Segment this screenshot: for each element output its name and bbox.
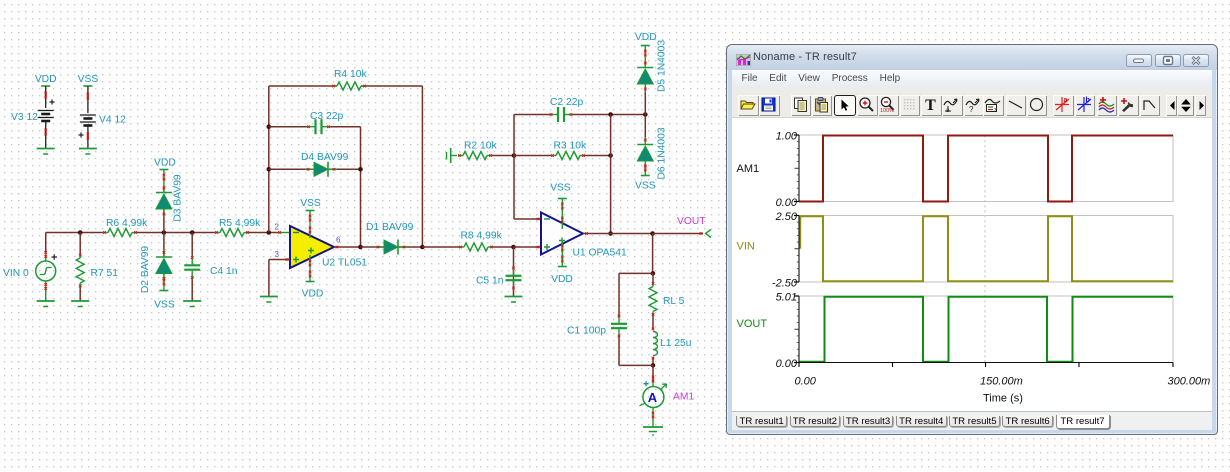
svg-text:D1 BAV99: D1 BAV99 [366, 222, 414, 233]
svg-text:U1 OPA541: U1 OPA541 [573, 248, 627, 259]
svg-text:VSS: VSS [154, 300, 175, 311]
svg-text:AM1: AM1 [673, 392, 694, 403]
svg-text:b: b [1085, 97, 1089, 104]
svg-text:a: a [1064, 97, 1068, 104]
svg-text:VOUT: VOUT [737, 318, 768, 330]
svg-text:z: z [994, 108, 997, 114]
svg-text:3: 3 [275, 250, 280, 259]
svg-text:R5 4,99k: R5 4,99k [219, 218, 261, 229]
svg-text:300.00m: 300.00m [1168, 376, 1211, 388]
svg-text:VDD: VDD [35, 74, 57, 85]
svg-text:AM1: AM1 [737, 163, 760, 175]
svg-text:V3 12: V3 12 [11, 112, 38, 123]
svg-text:VSS: VSS [78, 74, 99, 85]
svg-text:VDD: VDD [154, 158, 176, 169]
svg-text:-2.50: -2.50 [772, 277, 798, 289]
svg-text:D3 BAV99: D3 BAV99 [173, 174, 184, 222]
svg-text:0.00: 0.00 [776, 358, 798, 370]
svg-text:150.00m: 150.00m [980, 376, 1023, 388]
svg-text:C4 1n: C4 1n [210, 266, 238, 277]
svg-text:100%: 100% [880, 108, 894, 113]
svg-text:0.00: 0.00 [795, 376, 817, 388]
svg-text:L1 25u: L1 25u [660, 338, 692, 349]
svg-text:1.00: 1.00 [776, 130, 798, 142]
svg-text:2.50: 2.50 [775, 211, 798, 223]
svg-text:R6 4,99k: R6 4,99k [106, 218, 148, 229]
svg-text:VSS: VSS [550, 183, 571, 194]
svg-text:R4 10k: R4 10k [334, 69, 367, 80]
svg-text:V4 12: V4 12 [99, 115, 126, 126]
svg-text:5.01: 5.01 [776, 291, 797, 303]
svg-text:VDD: VDD [302, 289, 324, 300]
svg-text:VSS: VSS [635, 181, 656, 192]
svg-text:R8 4,99k: R8 4,99k [461, 231, 503, 242]
svg-text:C1 100p: C1 100p [567, 326, 606, 337]
svg-text:VIN 0: VIN 0 [3, 268, 29, 279]
svg-text:D6 1N4003: D6 1N4003 [657, 127, 668, 179]
svg-text:R7 51: R7 51 [91, 268, 119, 279]
svg-text:RL 5: RL 5 [663, 296, 685, 307]
svg-text:C2 22p: C2 22p [550, 97, 583, 108]
svg-text:T: T [925, 97, 936, 113]
svg-text:C5 1n: C5 1n [476, 276, 504, 287]
svg-text:VDD: VDD [551, 274, 573, 285]
svg-text:0.00: 0.00 [776, 197, 798, 209]
svg-text:D4 BAV99: D4 BAV99 [301, 152, 349, 163]
svg-text:VDD: VDD [635, 32, 657, 43]
svg-text:D2 BAV99: D2 BAV99 [140, 246, 151, 294]
svg-text:R2 10k: R2 10k [464, 141, 497, 152]
svg-text:C3 22p: C3 22p [310, 111, 343, 122]
svg-text:6: 6 [336, 236, 341, 245]
svg-text:?: ? [969, 105, 974, 113]
svg-text:Time (s): Time (s) [983, 393, 1023, 405]
svg-text:VSS: VSS [300, 198, 321, 209]
svg-text:VOUT: VOUT [677, 216, 706, 227]
svg-text:R3 10k: R3 10k [554, 141, 587, 152]
svg-text:U2 TL051: U2 TL051 [322, 258, 367, 269]
svg-text:A: A [648, 390, 658, 405]
svg-text:VIN: VIN [737, 241, 755, 253]
svg-text:D5 1N4003: D5 1N4003 [657, 40, 668, 92]
svg-text:2: 2 [275, 223, 280, 232]
